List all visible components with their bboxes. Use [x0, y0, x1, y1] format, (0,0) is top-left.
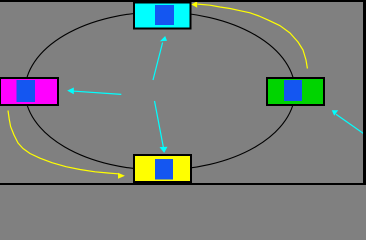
blue square in bottom box	[155, 159, 173, 180]
yellow arc arrow bottom-left (left box to bottom box)	[8, 111, 125, 179]
cyan arrow up-left (edge to right box)	[332, 110, 366, 136]
top box (cyan)	[134, 3, 191, 29]
blue square in right box	[284, 80, 302, 101]
frame border top	[0, 0, 366, 2]
right box (green)	[267, 78, 324, 105]
blue square in left box	[17, 80, 36, 102]
yellow arc arrow top-right (right box to top box)	[191, 1, 307, 68]
cyan arrow left (center to left box)	[67, 88, 121, 95]
cyan arrow down (center to bottom box)	[155, 101, 168, 153]
bottom box (yellow)	[134, 155, 191, 182]
frame border bottom	[0, 183, 366, 185]
cyan arrow up (center to top box)	[153, 36, 167, 80]
left box (magenta)	[0, 78, 58, 105]
blue square in top box	[155, 5, 174, 25]
frame border right	[363, 0, 366, 185]
cycle ellipse	[25, 12, 295, 170]
